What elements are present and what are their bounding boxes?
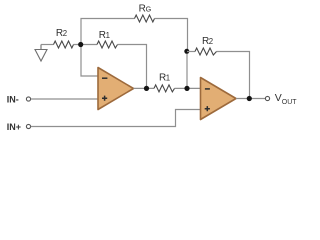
- svg-text:G: G: [146, 4, 152, 13]
- wire A2 output to VOUT terminal: [236, 98, 265, 100]
- svg-text:1: 1: [106, 31, 110, 40]
- wire node B to R2 right: [187, 51, 195, 53]
- node C junction dot: [184, 86, 189, 91]
- wire node B down to node C: [186, 52, 188, 89]
- terminal IN+: [26, 124, 30, 128]
- terminal IN-: [26, 97, 30, 101]
- resistor R2 right: [195, 48, 217, 55]
- op-amp A1: [98, 68, 134, 110]
- svg-text:1: 1: [166, 74, 170, 83]
- op-amp A2: [201, 78, 237, 120]
- resistor R1 left: [97, 41, 118, 48]
- wire top rail left leg from node A up and right to RG: [81, 19, 135, 45]
- ground: [35, 45, 47, 62]
- svg-text:IN-: IN-: [7, 94, 19, 104]
- wire R2 to R1 through node A: [74, 44, 98, 46]
- resistor R1 middle: [154, 85, 175, 92]
- wire IN- to A1 non-inverting input: [31, 98, 98, 100]
- terminal VOUT: [265, 96, 269, 100]
- node B junction dot: [184, 49, 189, 54]
- wire ground to R2: [41, 44, 54, 46]
- wire node A down to A1 inverting input: [81, 45, 98, 77]
- node VOUT junction dot: [247, 96, 252, 101]
- svg-text:2: 2: [63, 29, 67, 38]
- resistor RG: [135, 15, 155, 22]
- svg-text:V: V: [275, 92, 282, 104]
- node A1-out junction dot: [144, 86, 149, 91]
- svg-text:IN+: IN+: [7, 122, 21, 132]
- svg-text:2: 2: [209, 37, 213, 46]
- wire R1 to A2 inverting input: [175, 87, 201, 89]
- wire top rail right leg from RG down to node B: [155, 19, 188, 52]
- svg-text:OUT: OUT: [282, 99, 298, 106]
- wire A1 output to R1: [134, 87, 155, 89]
- node A junction dot: [78, 42, 83, 47]
- wire feedback R1 right end down to A1 output node: [118, 45, 147, 89]
- wire IN+ to A2 non-inverting input: [31, 110, 201, 127]
- wire R2 right to output node: [217, 52, 250, 99]
- resistor R2 left: [54, 41, 74, 48]
